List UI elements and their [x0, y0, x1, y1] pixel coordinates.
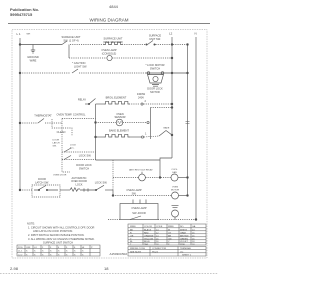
broil element: [104, 101, 129, 104]
wire element bus vertical: [95, 104, 97, 160]
node junction H-L1: [19, 189, 21, 191]
terminal A2 right: [154, 44, 155, 45]
wire temp riser: [61, 119, 63, 124]
svg-text:ANTI RECYCLE RELAY: ANTI RECYCLE RELAY: [129, 169, 153, 172]
label lock sw 2: [76, 163, 92, 170]
wire row A left: [20, 44, 62, 46]
node junction bake-L2: [171, 134, 173, 136]
label door latch: [53, 140, 60, 148]
svg-text:LATCH: LATCH: [53, 142, 60, 145]
label oven sensor: [115, 112, 126, 119]
svg-text:(CONSOLE): (CONSOLE): [102, 51, 117, 55]
door light switch blade: [130, 216, 141, 220]
svg-text:BAKE ELEMENT: BAKE ELEMENT: [109, 129, 129, 133]
wire row C right: [165, 72, 188, 74]
node junction A-mid: [187, 44, 189, 46]
svg-text:DOOR: DOOR: [53, 140, 60, 142]
svg-text:SWITCH: SWITCH: [79, 166, 89, 170]
svg-text:GY: GY: [168, 232, 172, 234]
svg-text:WIRING DIAGRAM: WIRING DIAGRAM: [90, 18, 129, 23]
wire row C mid dashed: [79, 72, 146, 74]
relay coil stub: [141, 172, 143, 174]
broil relay blade: [89, 99, 96, 105]
svg-text:BROIL ELEMENT: BROIL ELEMENT: [106, 96, 127, 100]
svg-text:WIRE: WIRE: [168, 226, 174, 228]
node L2 label: [169, 32, 173, 36]
svg-text:BLACK: BLACK: [144, 228, 152, 231]
svg-text:PINK: PINK: [180, 244, 186, 246]
latch switch box dashed: [32, 185, 60, 197]
label terminal 2: [145, 99, 147, 103]
node junction C-L2: [171, 72, 173, 74]
wire L2 bus: [171, 37, 173, 158]
svg-text:4844: 4844: [109, 4, 119, 9]
wire lamp row right: [179, 195, 188, 197]
label broil element: [106, 96, 127, 100]
svg-text:OR: OR: [130, 235, 134, 237]
svg-text:CODE: CODE: [156, 226, 163, 228]
wire row C left dashed: [20, 72, 70, 74]
svg-text:TERMINAL: TERMINAL: [180, 247, 192, 250]
label broil relay: [78, 98, 87, 102]
wire row E2 dashed: [62, 118, 96, 120]
svg-text:CONNECTOR: CONNECTOR: [152, 248, 166, 250]
svg-text:WIRING CODE: WIRING CODE: [130, 248, 146, 250]
svg-text:2. DPDT SWITCH SHOWN IN BAKE P: 2. DPDT SWITCH SHOWN IN BAKE POSITION.: [28, 233, 85, 237]
label lock stub: [53, 175, 67, 177]
wire selector upper dashed: [151, 107, 173, 109]
wire row I dashed 2: [45, 122, 62, 124]
console lamp: [107, 55, 112, 60]
latch sw terminal b: [46, 189, 47, 190]
svg-text:LOCK: LOCK: [75, 183, 82, 187]
svg-text:AND LATCH IN COOK POSITION.: AND LATCH IN COOK POSITION.: [33, 229, 73, 233]
svg-text:FAN: FAN: [172, 171, 177, 174]
wire bottom row right dashed: [158, 219, 196, 221]
door light switch box: [120, 204, 158, 220]
document code 4844: [109, 4, 119, 9]
wire row F left: [96, 136, 105, 138]
notes block: [27, 222, 95, 241]
wire L2 jog: [160, 158, 172, 178]
svg-text:WH: WH: [27, 34, 31, 36]
surface unit switch table title: [43, 241, 73, 245]
svg-text:MOTOR: MOTOR: [150, 90, 160, 94]
svg-text:5995475715: 5995475715: [10, 12, 33, 17]
wire row B dashed left: [69, 57, 107, 59]
svg-text:TAN: TAN: [144, 243, 149, 246]
svg-text:CLEAN: CLEAN: [57, 130, 66, 134]
svg-text:OVEN LAMP: OVEN LAMP: [131, 206, 146, 210]
svg-text:LOCK: LOCK: [70, 145, 76, 147]
label door light sw line2: [132, 211, 146, 215]
svg-text:THERMOSTAT: THERMOSTAT: [34, 113, 52, 117]
label lock motor top: [145, 63, 164, 70]
surface unit switch 2 blade: [148, 41, 154, 45]
node junction F-bus: [95, 136, 97, 138]
svg-text:OFF: OFF: [26, 247, 31, 249]
footer date: [10, 266, 19, 271]
label broil rating: [137, 92, 146, 99]
svg-text:POS: POS: [18, 247, 23, 249]
label latch sw: [35, 177, 49, 184]
svg-text:COLOR: COLOR: [144, 226, 152, 228]
label console lamp: [101, 48, 116, 55]
svg-text:WIRE: WIRE: [130, 226, 136, 228]
label surface unit switch: [61, 35, 80, 42]
wire mid drop dashed: [112, 160, 114, 190]
bake element: [104, 134, 129, 137]
svg-text:L1-1: L1-1: [18, 251, 23, 253]
oven motor: [172, 192, 179, 199]
terminal A2 left: [146, 44, 147, 45]
surface unit switch table: [17, 245, 100, 256]
wire row H right: [105, 189, 113, 191]
wire row B drop: [68, 45, 70, 59]
svg-text:OVEN DOOR: OVEN DOOR: [53, 175, 67, 177]
wire row D stub: [85, 103, 89, 105]
door lock switch blade: [72, 69, 78, 73]
wire lock row 1 dashed: [62, 151, 96, 153]
drawing number: [110, 252, 128, 256]
label thermostat: [34, 113, 52, 117]
node junction jog-fan: [159, 177, 161, 179]
svg-text:NOTE:: NOTE:: [27, 222, 35, 226]
svg-text:LOCK SW.: LOCK SW.: [79, 154, 92, 158]
wire blade to L2: [166, 131, 172, 136]
wire row H ticks: [80, 188, 95, 191]
wire L1 bus: [19, 38, 21, 190]
svg-text:SEE NOTE: SEE NOTE: [130, 251, 142, 253]
terminal post vertical: [150, 108, 152, 140]
svg-text:MOTOR: MOTOR: [171, 190, 180, 192]
svg-text:NO.: NO.: [180, 226, 184, 228]
fan motor: [171, 174, 178, 181]
lock switch 2 blade: [64, 156, 71, 160]
svg-text:L 1: L 1: [17, 32, 21, 36]
svg-text:L2-2: L2-2: [18, 254, 23, 256]
svg-text:(ONE OF FOUR): (ONE OF FOUR): [103, 40, 123, 44]
svg-text:SW.-DOOR: SW.-DOOR: [132, 211, 146, 215]
node junction C-mid: [187, 72, 189, 74]
node junction B-L2: [171, 57, 173, 59]
wire lock stub down: [62, 160, 70, 173]
wire row B dashed right: [112, 57, 172, 59]
lock motor terminal 2: [161, 72, 164, 75]
svg-text:RED: RED: [144, 232, 149, 234]
svg-text:UNIT SW.: UNIT SW.: [149, 37, 161, 41]
svg-text:WIRE: WIRE: [30, 58, 37, 62]
node junction lamp-N: [195, 219, 197, 221]
label lock motor bottom: [147, 87, 163, 94]
selector switch blade: [159, 131, 166, 137]
svg-text:GREEN: GREEN: [180, 238, 188, 240]
box top stubs: [133, 200, 146, 204]
terminal bake 1: [141, 136, 143, 138]
svg-text:QC: QC: [180, 251, 184, 253]
node junction A-L2: [171, 44, 173, 46]
label automatic door lock: [71, 176, 87, 187]
title WIRING DIAGRAM: [90, 18, 129, 23]
svg-text:BR: BR: [168, 235, 171, 237]
lock motor rotor: [153, 76, 158, 81]
terminal broil 2: [141, 103, 143, 105]
wire clean branch: [52, 119, 72, 136]
wire lamp row dashed: [113, 195, 172, 197]
svg-text:SHEET 1: SHEET 1: [182, 254, 192, 256]
svg-text:18: 18: [104, 266, 109, 271]
wire ground stub: [32, 45, 34, 51]
label clean: [57, 130, 66, 134]
svg-text:GA.: GA.: [192, 225, 196, 228]
wire row H left dashed: [20, 189, 32, 191]
svg-text:WHITE: WHITE: [180, 229, 188, 231]
terminal sensor: [147, 121, 149, 123]
wire N bus: [195, 37, 197, 220]
door lock switch blade: [96, 185, 104, 190]
svg-text:GRAY: GRAY: [180, 231, 187, 234]
wire row H mid: [60, 189, 70, 191]
wire row A dashed 1: [70, 44, 104, 46]
label bake element: [109, 129, 129, 133]
svg-text:SW. (1 OF 4): SW. (1 OF 4): [63, 38, 78, 42]
diagram border frame: [12, 30, 207, 259]
wire drop to lamp row: [112, 190, 114, 196]
wire row A dashed 3: [156, 44, 188, 46]
label switch 2: [149, 34, 162, 41]
thermostat switch blade: [38, 119, 44, 124]
node junction motor-mid: [187, 195, 189, 197]
fold line: [0, 273, 218, 275]
wire blade stub: [144, 136, 159, 137]
wire row E dashed right: [123, 122, 147, 124]
svg-text:VIOLET: VIOLET: [180, 241, 188, 243]
node junction selector-L2: [171, 107, 173, 109]
wire mid bus: [187, 45, 189, 196]
surface unit switch table text: [18, 247, 93, 256]
label lock sw NC: [70, 145, 76, 150]
node junction I-L1: [19, 122, 21, 124]
label terminal 1: [145, 132, 147, 136]
oven sensor: [116, 119, 123, 126]
terminal relay: [88, 103, 89, 104]
svg-text:BROWN: BROWN: [180, 235, 189, 237]
legend table lower: [128, 247, 206, 257]
svg-text:ORANGE: ORANGE: [144, 234, 154, 237]
svg-text:OVEN TEMP. CONTROL: OVEN TEMP. CONTROL: [56, 113, 86, 117]
node junction D-L2: [171, 103, 173, 105]
label fan: [171, 169, 178, 174]
svg-text:RELAY: RELAY: [78, 98, 87, 102]
svg-text:A15030C502: A15030C502: [110, 252, 128, 256]
label oven motor: [171, 187, 180, 192]
thermal fuse: [70, 188, 80, 192]
wire bottom row left dashed: [108, 219, 120, 221]
svg-text:SURFACE UNIT SWITCH: SURFACE UNIT SWITCH: [43, 241, 73, 245]
svg-text:OVEN: OVEN: [172, 187, 179, 189]
wire latch drop dashed: [61, 123, 63, 161]
label door light sw line1: [131, 206, 146, 210]
wire number marks: [186, 122, 190, 124]
svg-text:GN: GN: [168, 238, 172, 240]
svg-text:COOL: COOL: [171, 169, 178, 171]
label ground: [27, 55, 39, 62]
svg-text:240V: 240V: [138, 96, 144, 100]
footer page number: [104, 266, 109, 271]
legend table lower text: [130, 247, 192, 256]
wire fan row dashed: [113, 177, 139, 179]
wire row E dashed left: [96, 122, 117, 124]
svg-text:SW.: SW.: [132, 191, 137, 195]
svg-text:2-98: 2-98: [10, 266, 19, 271]
wire row F right: [129, 136, 141, 138]
lock motor brushes: [152, 85, 159, 87]
svg-text:3. ALL WIRING 240V AC UNLESS O: 3. ALL WIRING 240V AC UNLESS OTHERWISE N…: [28, 237, 95, 241]
wire row D left: [96, 103, 105, 105]
svg-text:SENSOR: SENSOR: [115, 115, 126, 119]
node junction E-bus: [95, 122, 97, 124]
node junction lamp row: [112, 195, 114, 197]
wire row D dashed: [129, 103, 140, 105]
svg-text:LATCH SW.: LATCH SW.: [35, 180, 49, 184]
wire row D dashed right: [144, 103, 173, 105]
lock motor top bar: [146, 72, 165, 74]
wire lock row 2 dashed: [62, 159, 96, 161]
label oven temp control: [56, 113, 86, 117]
svg-text:N: N: [195, 32, 197, 36]
wire lamp stub: [174, 217, 176, 220]
wire fan row mid dashed: [145, 177, 171, 179]
label oven lamp sw: [126, 188, 141, 195]
svg-text:LIGHT SW.: LIGHT SW.: [74, 65, 87, 69]
oven lamp: [172, 210, 179, 217]
lock motor body: [148, 75, 164, 84]
node junction A-L1: [19, 44, 21, 46]
lock switch 1 blade: [64, 148, 71, 152]
svg-text:BAKE: BAKE: [164, 126, 170, 129]
label surface unit element: [103, 37, 123, 44]
ground symbol: [31, 50, 35, 53]
publication number text: [10, 7, 39, 17]
node L1 label: [17, 32, 21, 36]
label caution: [72, 61, 87, 68]
surface unit switch blade: [62, 41, 67, 45]
surface unit element: [104, 42, 122, 44]
terminal H1: [95, 189, 96, 190]
svg-text:N.C.: N.C.: [70, 147, 75, 149]
node junction C-L1: [19, 72, 21, 74]
svg-text:LOCK SW.: LOCK SW.: [95, 181, 108, 185]
svg-text:SWITCH: SWITCH: [150, 67, 160, 71]
label lock sw H: [95, 181, 108, 185]
wire row A dashed 2: [122, 44, 146, 46]
legend table upper: [128, 224, 206, 245]
svg-text:PLUG: PLUG: [152, 251, 158, 253]
label lock sw 1: [79, 154, 92, 158]
svg-text:YELLOW: YELLOW: [144, 238, 154, 240]
label anti recycle relay: [129, 169, 153, 172]
oven sensor zigzag: [117, 121, 121, 124]
recycle relay coil: [139, 174, 146, 181]
label selector bake: [164, 126, 170, 129]
svg-text:LO: LO: [34, 247, 37, 249]
oven lamp brushes: [172, 206, 179, 208]
wire row I dotted: [20, 122, 38, 124]
lock motor terminal 1: [147, 72, 150, 75]
node junction fan-mid: [187, 177, 189, 179]
wire row G bottom: [96, 159, 161, 161]
latch switch: [34, 186, 58, 191]
label wire WH: [27, 34, 31, 36]
node N label: [195, 32, 197, 36]
latch sw terminal a: [38, 189, 39, 190]
svg-text:BLUE: BLUE: [144, 241, 150, 243]
legend table upper text: [130, 225, 196, 246]
svg-text:L2: L2: [169, 32, 173, 36]
svg-text:SW.: SW.: [53, 146, 57, 148]
header rule: [8, 23, 210, 25]
wire fan row right: [178, 177, 188, 179]
